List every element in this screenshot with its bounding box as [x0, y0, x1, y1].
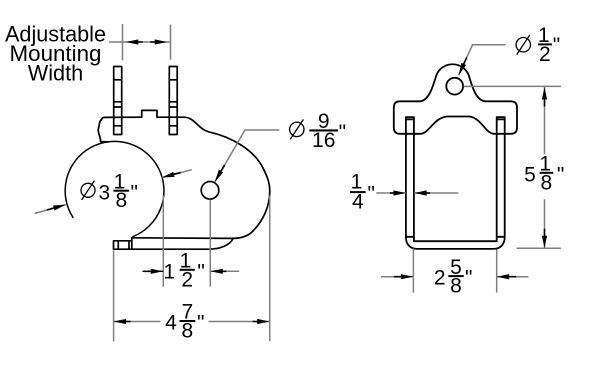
5 1/8 ext lines — [464, 86, 561, 248]
crown hole Ø1/2 — [446, 78, 463, 95]
1/4 left arrow — [390, 190, 406, 195]
1/4 dim tails — [376, 192, 458, 194]
wheel circle (Ø3 1/8) — [65, 141, 164, 236]
svg-text:8: 8 — [541, 171, 553, 194]
left leg rod — [406, 117, 414, 241]
svg-text:Width: Width — [28, 61, 84, 86]
dim text 1 1/2" — [163, 250, 204, 292]
svg-text:8: 8 — [182, 320, 194, 343]
1/2 leader — [459, 45, 506, 76]
svg-text:3: 3 — [98, 181, 110, 204]
svg-text:1: 1 — [163, 260, 175, 283]
1 1/2 left arrow — [144, 269, 164, 274]
1/4 right arrow — [414, 190, 430, 195]
adj width ext lines — [123, 24, 171, 60]
svg-text:": " — [465, 267, 472, 290]
1/2 leader arrow — [456, 56, 469, 76]
2 5/8 dim tails — [381, 276, 528, 278]
hole Ø9/16 — [201, 182, 219, 200]
adj width right arrow — [150, 39, 167, 44]
2 5/8 left arrow — [394, 274, 414, 279]
mounting bolt right — [169, 67, 177, 135]
svg-text:5: 5 — [524, 163, 536, 186]
svg-text:2: 2 — [181, 268, 193, 291]
svg-text:": " — [368, 183, 375, 206]
5 1/8 dim segments — [544, 87, 546, 248]
svg-text:4: 4 — [165, 312, 177, 335]
svg-text:": " — [339, 121, 346, 144]
bracket left wavy edge — [98, 120, 108, 142]
svg-text:": " — [197, 312, 204, 335]
4 7/8 ext lines — [114, 196, 270, 342]
label Ø1/2" — [516, 24, 560, 66]
bracket body outline — [102, 110, 270, 238]
svg-text:": " — [197, 260, 204, 283]
1 1/2 left dim tail (dark) — [143, 270, 164, 272]
svg-text:2: 2 — [539, 43, 551, 66]
bottom bar — [406, 237, 505, 249]
svg-text:": " — [553, 34, 560, 57]
2 5/8 right arrow — [497, 274, 517, 279]
svg-text:16: 16 — [312, 129, 335, 152]
svg-text:8: 8 — [115, 189, 127, 212]
2 5/8 ext lines — [413, 249, 496, 293]
4 7/8 right arrow — [253, 319, 270, 324]
wheel dia arrow lower-left — [46, 202, 66, 212]
dim text 5 1/8" — [524, 153, 564, 195]
svg-text:4: 4 — [352, 191, 364, 214]
wheel dia arrow upper-right — [161, 170, 181, 180]
label Ø3 1/8" — [81, 170, 138, 212]
5 1/8 top arrow — [542, 87, 547, 107]
mounting bolt left — [114, 67, 122, 135]
svg-text:8: 8 — [450, 275, 462, 298]
svg-text:": " — [557, 163, 564, 186]
label Ø9/16" — [290, 110, 346, 152]
adj width leader+dim line — [109, 41, 171, 43]
note: Adjustable Mounting Width — [5, 22, 106, 86]
dim text 1/4" — [350, 171, 375, 214]
right leg rod — [497, 117, 505, 241]
wheel dia arrow tails — [35, 170, 192, 214]
crown plate outline — [394, 64, 517, 134]
dim text 4 7/8" — [165, 301, 204, 343]
bottom plate — [114, 238, 233, 249]
svg-text:": " — [131, 181, 138, 204]
1 1/2 right arrow — [210, 269, 226, 274]
9/16 leader arrow — [213, 164, 227, 183]
1 1/2 dim tails — [210, 270, 239, 272]
dim text 2 5/8" — [434, 256, 473, 298]
5 1/8 bottom arrow — [542, 229, 547, 249]
9/16 leader — [215, 130, 279, 182]
svg-text:2: 2 — [434, 267, 446, 290]
adj width left arrow — [126, 39, 143, 44]
4 7/8 dim segments — [114, 321, 270, 323]
4 7/8 left arrow — [114, 319, 131, 324]
1 1/2 ext lines — [163, 196, 210, 287]
